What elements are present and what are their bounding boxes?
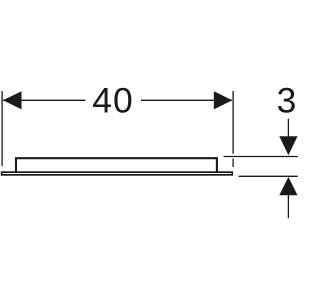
wire: lower extension line of dim 3 <box>239 175 298 177</box>
svg-text:3: 3 <box>277 81 297 121</box>
wire: dimension line 40 left segment <box>3 99 85 101</box>
wire: dim 3 upper stem <box>287 119 289 140</box>
wire: left extension line of dim 40 <box>1 91 3 166</box>
wire: dimension line 40 right segment <box>141 99 232 101</box>
node: product body (side profile box) <box>16 158 217 171</box>
wire: upper extension line of dim 3 <box>224 156 298 158</box>
node: left arrowhead of dim 40 <box>3 91 22 109</box>
node: down arrowhead of dim 3 <box>279 136 297 155</box>
node: product base plate (thin bar) <box>2 172 233 175</box>
node: right arrowhead of dim 40 <box>214 91 233 109</box>
wire: right extension line of dim 40 (lower dash) <box>232 159 234 167</box>
wire: right extension line of dim 40 (upper solid part) <box>232 91 234 154</box>
node: up arrowhead of dim 3 <box>279 177 297 195</box>
svg-text:40: 40 <box>92 81 134 121</box>
wire: dim 3 lower stem <box>287 192 289 218</box>
